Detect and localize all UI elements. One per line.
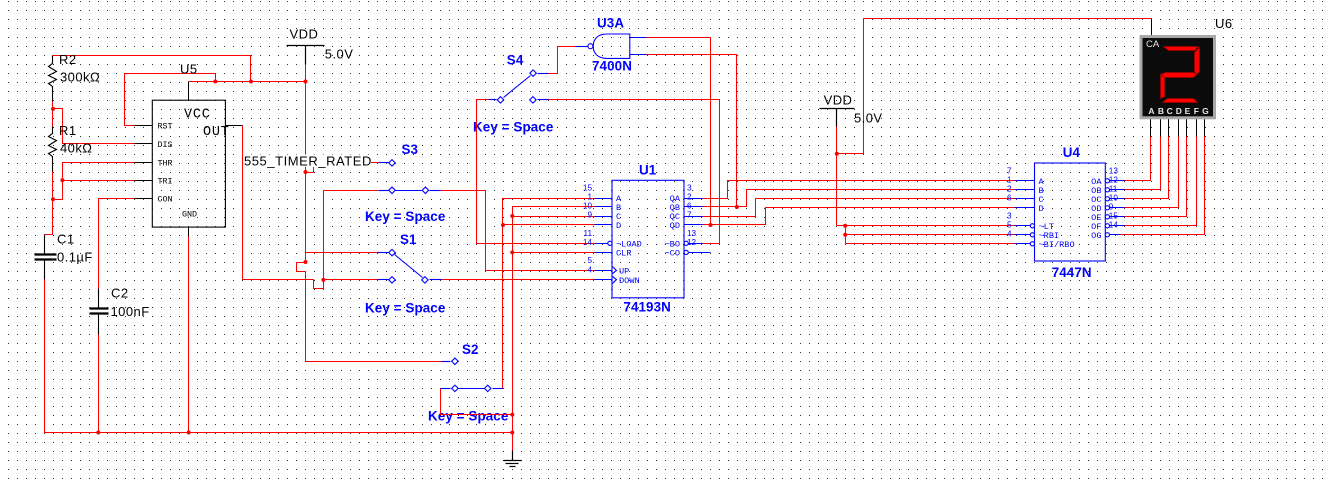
IC U1 74193N counter — [583, 163, 711, 315]
svg-text:74193N: 74193N — [623, 299, 671, 314]
svg-text:555_TIMER_RATED: 555_TIMER_RATED — [244, 154, 372, 169]
wire net BO: S4 lower throw to ~BO output — [549, 100, 720, 244]
svg-text:QD: QD — [670, 221, 680, 231]
power VDD supply 2 — [820, 93, 883, 127]
svg-text:THR: THR — [158, 159, 173, 169]
svg-text:3: 3 — [1007, 211, 1012, 220]
wire net OC — [1125, 137, 1169, 199]
wire net UPCLK: S3 common to UP pin — [441, 191, 595, 271]
svg-text:13: 13 — [1109, 166, 1119, 175]
segment B — [1195, 48, 1200, 75]
wire net OUT555: S3 lower throw drop — [324, 190, 378, 192]
wire net VDD: 555_TIMER_RATED label wire and jog — [306, 163, 379, 173]
wire net GND: C2 bottom drop — [98, 335, 100, 433]
svg-text:DIS: DIS — [158, 140, 173, 150]
wire net BCCLR: B C CLR preset tie down to ground net — [513, 207, 595, 415]
junction at 98.3,432.5 — [96, 431, 100, 435]
junction at 251,81.5 — [249, 80, 253, 84]
svg-text:C2: C2 — [111, 286, 129, 301]
svg-text:14: 14 — [1109, 220, 1119, 229]
svg-text:~CO: ~CO — [665, 249, 680, 259]
svg-text:12: 12 — [1109, 175, 1119, 184]
svg-text:5: 5 — [1007, 220, 1012, 229]
svg-text:S4: S4 — [507, 52, 524, 67]
svg-text:C1: C1 — [57, 232, 75, 247]
svg-text:A: A — [1148, 106, 1154, 116]
svg-text:5.0V: 5.0V — [854, 111, 883, 126]
wire net VDD2: branch to display CA — [837, 19, 1152, 154]
wire black stub 555 RST — [135, 125, 153, 127]
segment G — [1161, 73, 1197, 78]
svg-text:12: 12 — [687, 238, 697, 247]
segment D — [1163, 99, 1198, 103]
wire net QD: QD to U4 D — [703, 208, 1015, 225]
svg-text:OUT: OUT — [203, 125, 230, 140]
svg-text:6: 6 — [1007, 193, 1012, 202]
wire net QA: QA to U4 A — [703, 181, 1015, 199]
wire net QD: NAND top input down to QD row — [647, 38, 711, 225]
power VDD supply 1 — [287, 27, 354, 65]
svg-text:40kΩ: 40kΩ — [60, 141, 92, 156]
svg-text:7: 7 — [1007, 166, 1012, 175]
wire net OUT555: 555 OUT down and right with jog to S1 lower throw — [243, 126, 378, 289]
wire net THR-TRI: R1 bottom to C1 top — [45, 172, 53, 235]
wire net VDD: bus above 555 — [189, 81, 306, 83]
svg-text:F: F — [1194, 106, 1199, 116]
svg-text:CLR: CLR — [616, 249, 631, 259]
junction at 845.2,225.8 — [843, 224, 847, 228]
svg-text:10: 10 — [583, 202, 593, 211]
svg-text:TRI: TRI — [158, 176, 173, 186]
svg-text:D: D — [1176, 106, 1182, 116]
svg-text:3: 3 — [687, 184, 692, 193]
wire black stub 555 CON — [135, 198, 153, 200]
svg-text:9: 9 — [1109, 202, 1114, 211]
switch S1 — [378, 232, 442, 283]
wire net VDD: staircase down to S2 upper throw — [297, 263, 442, 362]
junction at 62.4,180.3 — [60, 178, 64, 182]
logic gate U3A 7400N NAND (mirrored) — [576, 15, 647, 73]
junction at 512.3,252.4 — [510, 250, 514, 254]
svg-text:C: C — [1167, 106, 1173, 116]
svg-text:CON: CON — [158, 195, 173, 205]
svg-text:S2: S2 — [462, 342, 479, 357]
svg-text:Key = Space: Key = Space — [365, 301, 445, 316]
junction at 188.7,432.5 — [187, 431, 191, 435]
svg-text:2: 2 — [687, 193, 692, 202]
wire black stub display CA feed — [1151, 19, 1153, 37]
svg-text:U1: U1 — [639, 163, 657, 178]
svg-text:2: 2 — [1007, 184, 1012, 193]
junction at 215.3,81.5 — [213, 80, 217, 84]
junction at 53,108.9 — [51, 107, 55, 111]
wire net LOAD: S4 common down to ~LOAD pin — [477, 100, 595, 244]
svg-text:7400N: 7400N — [592, 59, 632, 74]
svg-text:13: 13 — [687, 229, 697, 238]
svg-text:Key = Space: Key = Space — [365, 209, 445, 224]
svg-text:U6: U6 — [1215, 16, 1233, 31]
svg-text:5: 5 — [587, 256, 592, 265]
svg-text:B: B — [1158, 106, 1164, 116]
wire black stub 555 OUT — [226, 125, 243, 127]
svg-text:0.1µF: 0.1µF — [57, 250, 93, 265]
IC U4 7447N decoder — [1007, 145, 1125, 280]
svg-text:D: D — [616, 221, 621, 231]
junction at 736.8,207 — [735, 205, 739, 209]
segment A — [1164, 47, 1199, 51]
svg-text:G: G — [1202, 106, 1209, 116]
svg-text:15: 15 — [1109, 211, 1119, 220]
wire net VDD2: stem drop to branch — [836, 127, 838, 226]
wire black stub 555 DIS — [135, 143, 153, 145]
wire black stub 555 GND stem — [188, 228, 190, 237]
junction at 323.4,279.9 — [321, 278, 325, 282]
capacitor C2 — [90, 286, 150, 335]
svg-text:11: 11 — [584, 229, 593, 238]
wire black stub 555 VCC stem — [188, 82, 190, 101]
svg-text:4: 4 — [587, 265, 592, 274]
svg-text:1: 1 — [587, 193, 592, 202]
wire net DOWNCLK: S1 common to DOWN pin — [442, 279, 595, 281]
svg-text:S3: S3 — [402, 142, 419, 157]
switch S3 — [379, 142, 441, 194]
wire net GND: below S2 to ground symbol — [441, 389, 513, 415]
wire net QB: NAND bottom input down to QB row — [647, 55, 737, 207]
wire net OD — [1125, 137, 1179, 208]
svg-text:OG: OG — [1091, 231, 1101, 241]
wire net GND: C1 bottom and ground rail — [45, 280, 513, 433]
svg-text:U4: U4 — [1063, 145, 1081, 160]
junction at 710.5,225 — [709, 223, 713, 227]
wire net VDD2: tie bar to ~RBI and ~BI/RBO — [845, 226, 847, 244]
svg-text:CA: CA — [1146, 39, 1160, 50]
ground — [504, 451, 522, 467]
svg-text:U5: U5 — [180, 62, 198, 77]
svg-text:R2: R2 — [59, 52, 77, 67]
svg-text:5.0V: 5.0V — [325, 47, 354, 62]
svg-text:Key = Space: Key = Space — [473, 120, 553, 135]
key labels — [365, 120, 553, 424]
svg-text:E: E — [1185, 106, 1191, 116]
wire net THR-TRI: THR wire — [53, 163, 135, 200]
wire net OG — [1121, 137, 1205, 235]
svg-text:1: 1 — [1007, 175, 1012, 184]
svg-text:VDD: VDD — [824, 93, 853, 108]
wire net OE — [1125, 137, 1187, 217]
svg-text:GND: GND — [182, 210, 197, 220]
wire net OA: U4 OA up to display A — [1125, 137, 1151, 181]
wire black stub 555 THR — [135, 162, 153, 164]
svg-text:7: 7 — [687, 211, 692, 220]
junction at 305.5,81.5 — [304, 80, 308, 84]
resistor R2 — [49, 52, 101, 102]
svg-text:4: 4 — [1007, 229, 1012, 238]
wire net VDD: VDD1 vertical drop — [305, 65, 307, 263]
wire black stub 555 TRI — [135, 180, 153, 182]
svg-text:7447N: 7447N — [1052, 265, 1092, 280]
svg-text:10: 10 — [1109, 193, 1119, 202]
segment E — [1161, 75, 1165, 99]
wire net OB — [1125, 137, 1161, 190]
wire net R1R2: branch to DIS pin — [53, 109, 135, 144]
wire net CON: CON pin to C2 top — [99, 199, 135, 289]
svg-text:R1: R1 — [59, 123, 77, 138]
node 555_TIMER_RATED label — [243, 154, 372, 169]
junction at 512.3,414.6 — [510, 413, 514, 417]
svg-text:11: 11 — [1109, 184, 1118, 193]
svg-text:15: 15 — [583, 184, 593, 193]
wire net NANDOUT: NAND output to S4 upper throw — [549, 47, 576, 74]
svg-text:D: D — [1039, 204, 1044, 214]
junction at 53,199.2 — [51, 197, 55, 201]
junction at 512.3,432.5 — [510, 431, 514, 435]
svg-text:100nF: 100nF — [111, 304, 150, 319]
svg-text:VCC: VCC — [184, 108, 211, 123]
display U6 seven-segment — [1141, 16, 1233, 118]
wire black stubs display segment pins — [1151, 118, 1205, 137]
svg-text:6: 6 — [687, 202, 692, 211]
resistor R1 — [49, 123, 93, 172]
svg-text:300kΩ: 300kΩ — [60, 70, 100, 85]
capacitor C1 — [35, 232, 93, 280]
junction at 512.3,216 — [510, 214, 514, 218]
junction at 305.5,262 — [304, 260, 308, 264]
wire net VDD: branch to S1 upper throw — [306, 252, 378, 254]
wire net ADLOAD: A and D preset tie, down to S2 common — [496, 199, 595, 389]
svg-text:9: 9 — [587, 211, 592, 220]
junction at 305.5,172 — [304, 170, 308, 174]
wire net VDD2: to ~LT pin — [837, 225, 1015, 227]
switch S4 — [489, 52, 549, 103]
wire net VDD: RST loop — [125, 74, 216, 126]
svg-text:U3A: U3A — [597, 15, 624, 30]
svg-text:UP: UP — [619, 267, 629, 277]
svg-text:DOWN: DOWN — [619, 276, 640, 286]
svg-text:14: 14 — [583, 238, 593, 247]
svg-text:S1: S1 — [400, 232, 417, 247]
wire net GND: 555 GND stem drop — [188, 237, 190, 433]
wire net QC: QC to U4 C — [703, 199, 1015, 217]
junction at 845.2,234.8 — [843, 233, 847, 237]
op-amp U5 555 timer box — [152, 62, 229, 228]
junction at 503,225 — [501, 223, 505, 227]
svg-text:VDD: VDD — [290, 27, 319, 42]
wire net OF — [1125, 137, 1197, 226]
svg-text:~BI/RBO: ~BI/RBO — [1039, 240, 1075, 250]
wire net VDD: R2 top to bus — [53, 56, 251, 82]
wire net THR-TRI: TRI branch — [63, 180, 135, 182]
wire net R1R2: R2 bottom to R1 top through junction — [52, 102, 54, 127]
switch S2 — [441, 342, 503, 392]
svg-text:RST: RST — [158, 121, 173, 131]
junction at 836.8,153.7 — [835, 152, 839, 156]
wire net QB: QB to U4 B — [703, 190, 1015, 207]
